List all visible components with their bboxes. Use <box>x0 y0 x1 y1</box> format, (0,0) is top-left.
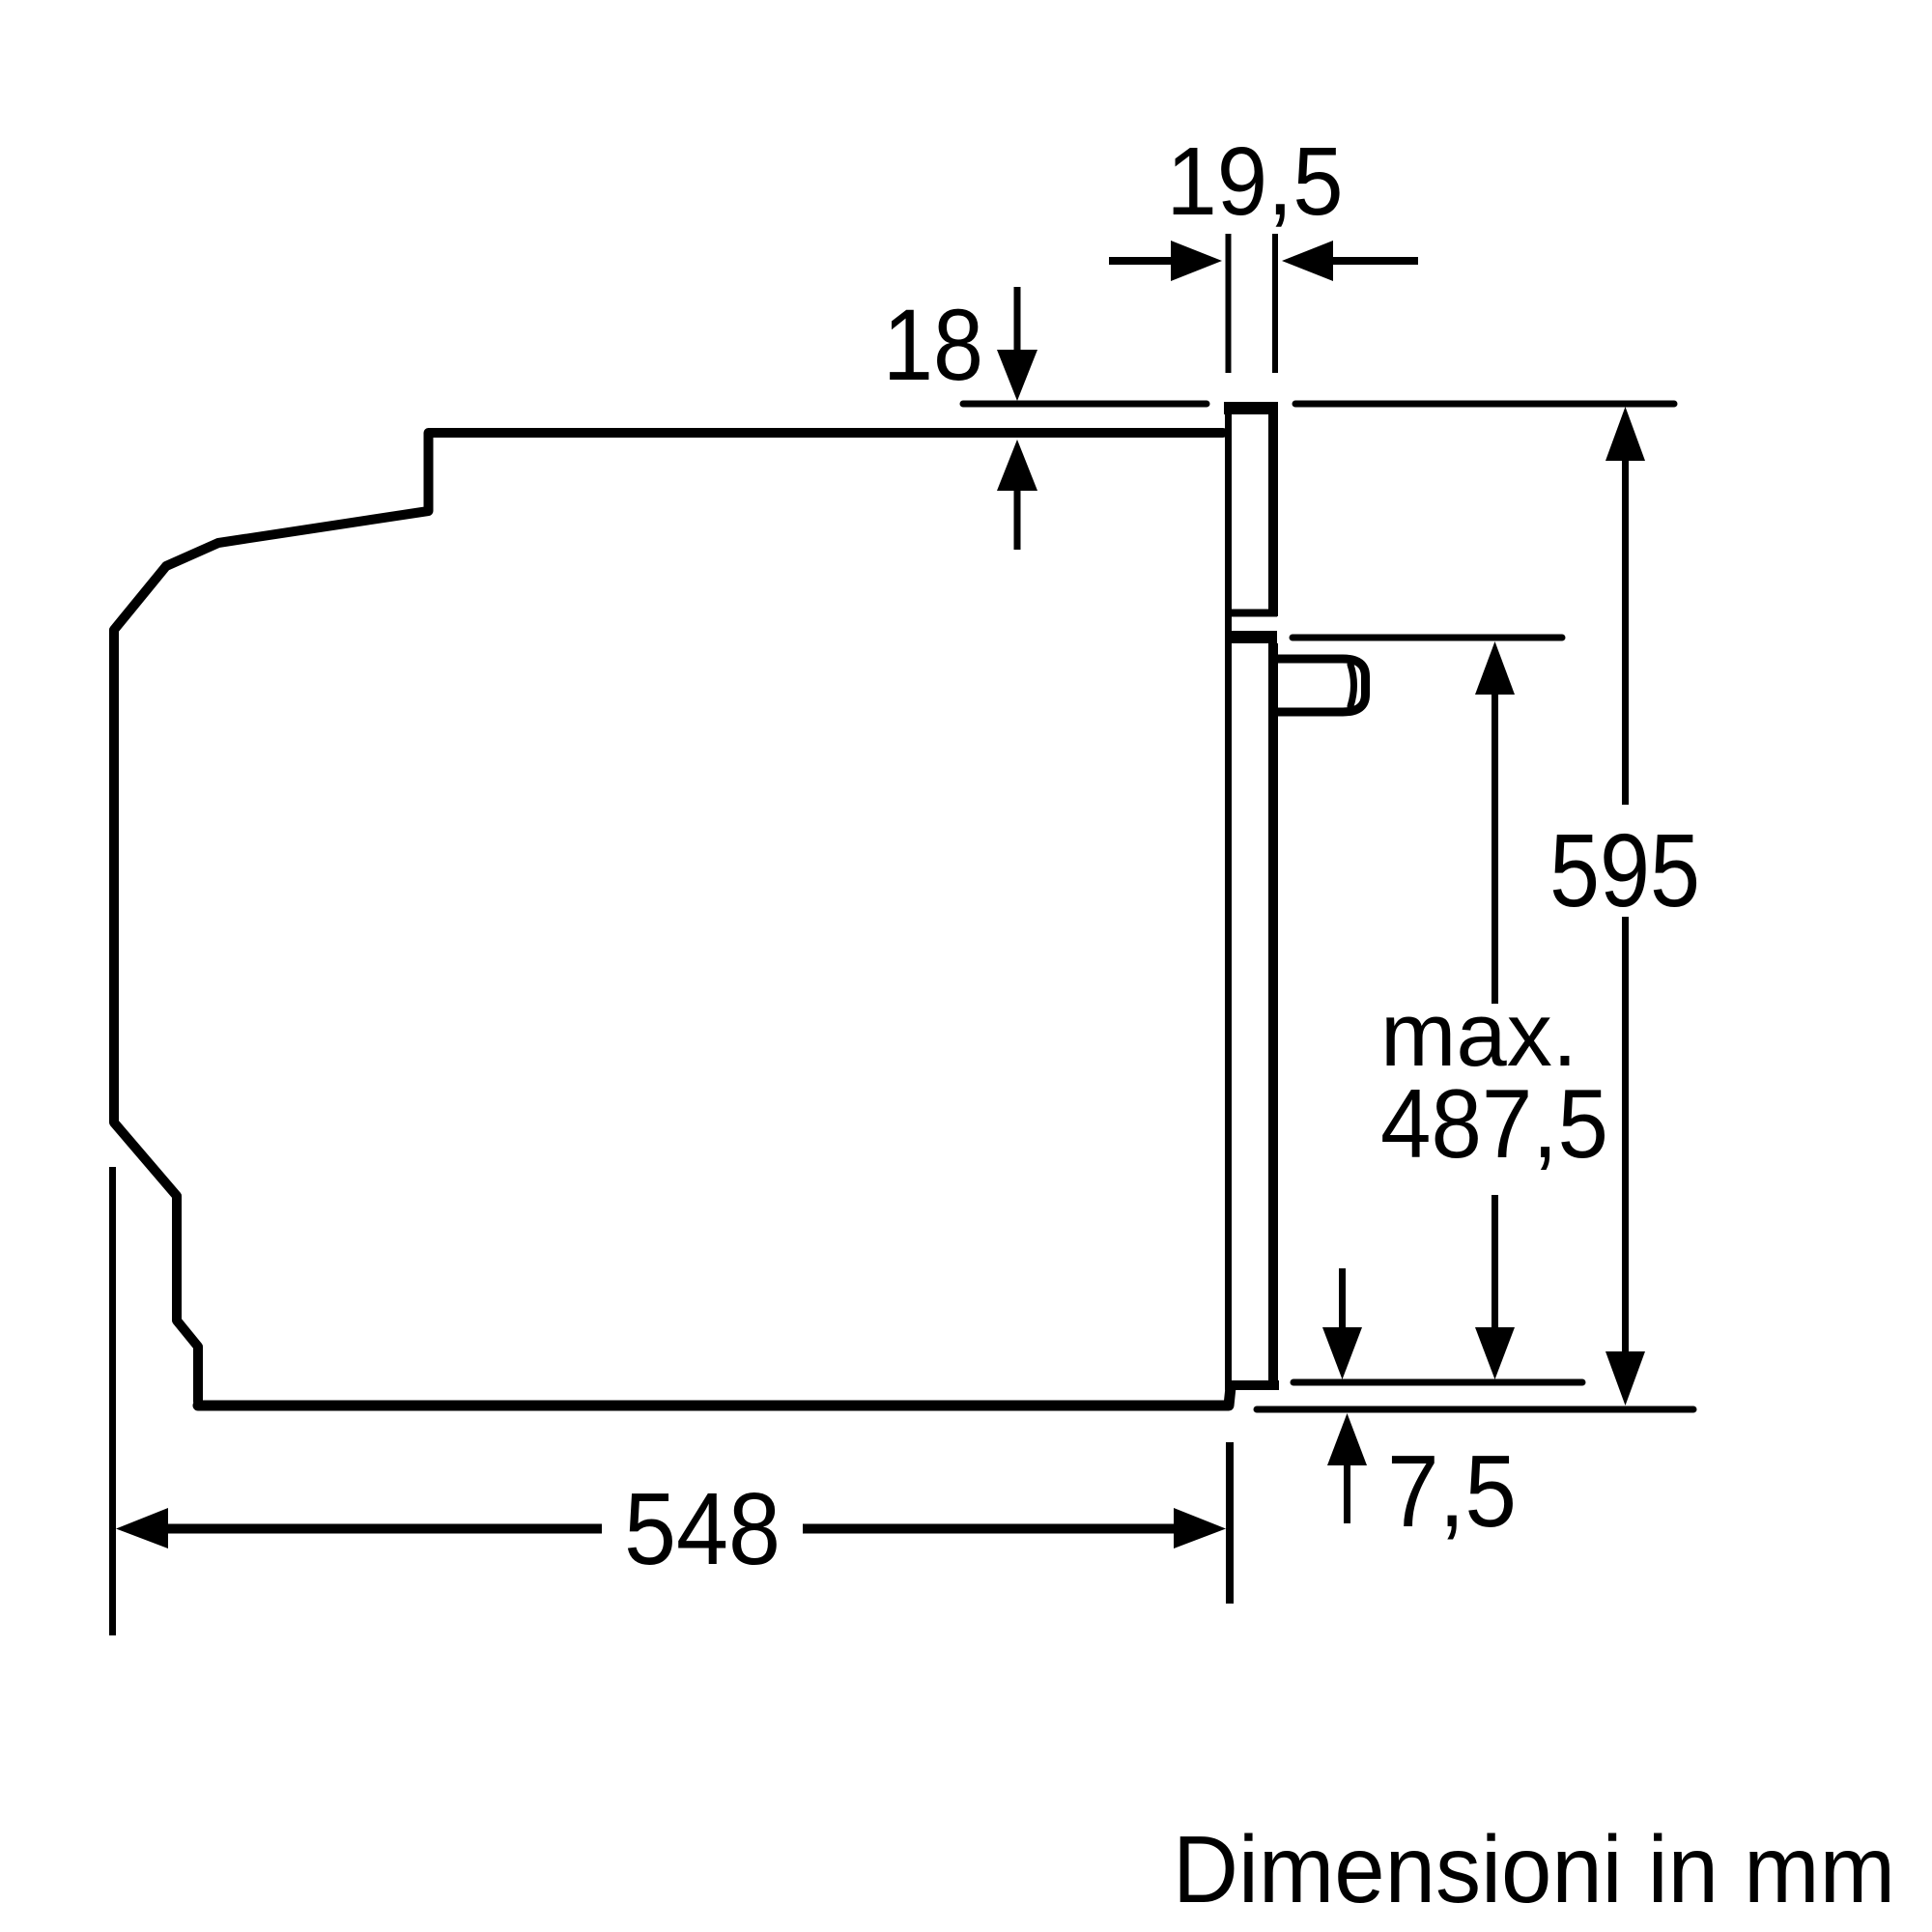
svg-text:18: 18 <box>883 289 983 402</box>
svg-text:487,5: 487,5 <box>1380 1070 1608 1179</box>
dimension 548 right line <box>803 1524 1174 1534</box>
svg-text:7,5: 7,5 <box>1387 1435 1517 1548</box>
dimension max 487,5 bottom arrowhead <box>1475 1327 1515 1379</box>
dimension max 487,5 top arrowhead <box>1475 641 1515 695</box>
oven body outline <box>114 433 1223 1402</box>
dimension 18 up arrowhead <box>997 440 1037 491</box>
extension line bottom level <box>1257 1406 1693 1413</box>
door inner closure line <box>1230 610 1277 617</box>
door outer face lower segment <box>1268 643 1278 1384</box>
door seal bar <box>1226 631 1277 643</box>
knob inner arc <box>1350 665 1354 706</box>
dimension max 487,5 lower tail <box>1492 1195 1498 1331</box>
dimension 18 down arrowhead <box>997 350 1037 401</box>
svg-text:548: 548 <box>624 1472 781 1586</box>
extension line door-top level left segment <box>963 401 1207 408</box>
dimension 18 up arrow tail <box>1014 488 1021 550</box>
svg-text:19,5: 19,5 <box>1167 128 1344 236</box>
extension line above door left (19,5) <box>1226 234 1232 373</box>
extension line above door right (19,5) <box>1272 234 1278 373</box>
dimension 18 down arrow tail <box>1014 287 1021 353</box>
dimension 548 right arrowhead <box>1174 1508 1226 1548</box>
dimension 19,5 right line <box>1331 257 1418 265</box>
extension line max 487,5 bottom level <box>1293 1379 1582 1386</box>
oven bottom line <box>198 1387 1231 1406</box>
svg-text:Dimensioni in mm: Dimensioni in mm <box>1173 1816 1895 1922</box>
dimension 595 upper tail <box>1622 458 1629 805</box>
extension line door-top level right segment <box>1295 401 1674 408</box>
knob outline <box>1278 659 1366 712</box>
door top edge <box>1224 402 1278 414</box>
door front panel left edge <box>1225 404 1232 1387</box>
svg-text:595: 595 <box>1549 811 1700 928</box>
door bottom edge <box>1225 1380 1279 1390</box>
dimension max 487,5 upper tail <box>1492 692 1498 1004</box>
extension line knob level (max 487,5 top) <box>1293 635 1562 641</box>
dimension 595 top arrowhead <box>1605 407 1645 461</box>
dimension 7,5 companion down arrow tail <box>1339 1268 1346 1331</box>
extension line 548 left <box>109 1167 116 1635</box>
dimension 7,5 companion down arrowhead <box>1322 1327 1362 1379</box>
dimension 548 left line <box>164 1524 602 1534</box>
dimension 595 bottom arrowhead <box>1605 1351 1645 1406</box>
dimension 7,5 up arrow tail <box>1344 1463 1350 1523</box>
door outer face upper segment <box>1268 406 1278 616</box>
dimension 19,5 left arrowhead <box>1171 241 1222 281</box>
dimension 548 left arrowhead <box>116 1508 168 1548</box>
extension line 548 right <box>1226 1442 1234 1604</box>
dimension 19,5 right arrowhead <box>1282 241 1333 281</box>
dimension 7,5 up arrowhead <box>1327 1413 1367 1465</box>
dimension 19,5 left line <box>1109 257 1175 265</box>
dimension 595 lower tail <box>1622 917 1629 1354</box>
